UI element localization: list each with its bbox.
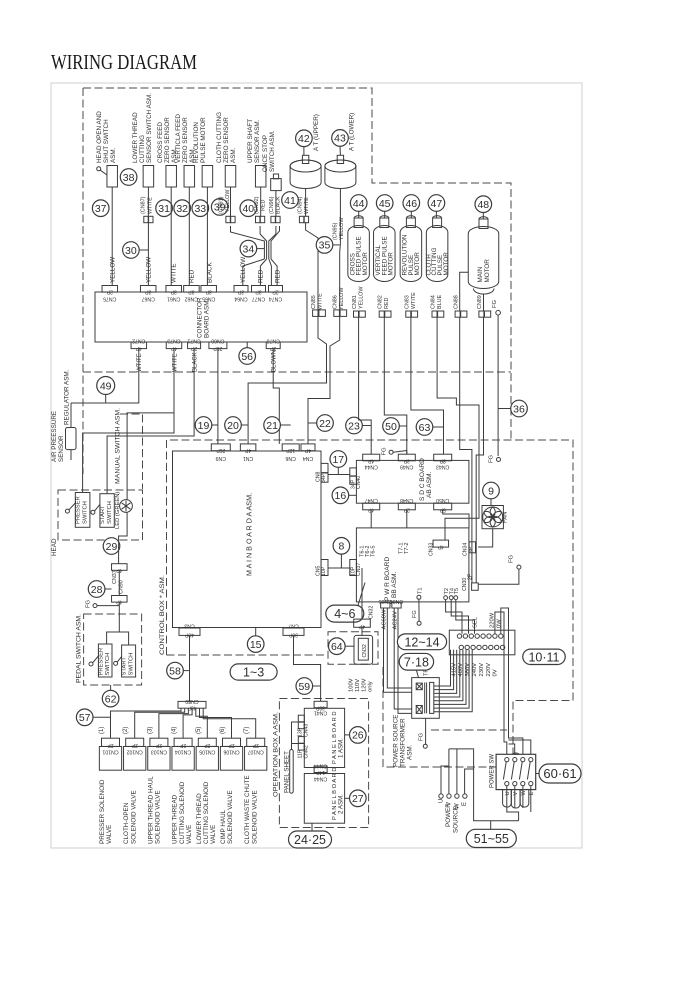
svg-text:35: 35 xyxy=(319,240,331,252)
OPERATION BOX dashed box xyxy=(279,699,368,828)
svg-text:VALVE: VALVE xyxy=(210,825,217,844)
svg-text:15: 15 xyxy=(250,639,262,651)
svg-text:220V: 220V xyxy=(486,663,492,677)
motor cross feed pulse xyxy=(348,216,370,282)
fan xyxy=(482,506,509,529)
svg-text:CN73: CN73 xyxy=(167,338,180,344)
svg-text:12P: 12P xyxy=(286,447,296,453)
svg-text:4P: 4P xyxy=(437,543,444,549)
svg-text:(1): (1) xyxy=(99,727,105,734)
label POWER SOURCE xyxy=(445,803,460,833)
connector CN47 sdc bottom xyxy=(363,497,380,512)
connector CN61 board top xyxy=(166,286,182,302)
wire CN88 to CN30 xyxy=(460,317,472,583)
svg-text:(CN96): (CN96) xyxy=(269,196,275,214)
svg-text:MOTOR: MOTOR xyxy=(414,252,421,276)
connector CN90 4P xyxy=(112,570,128,604)
svg-text:BLOWN: BLOWN xyxy=(272,350,278,372)
svg-text:FG: FG xyxy=(412,610,418,618)
svg-text:19: 19 xyxy=(198,420,210,432)
svg-text:HEAD OPEN AND: HEAD OPEN AND xyxy=(96,111,103,163)
wire CN7 to CN41 xyxy=(294,635,321,701)
svg-text:YELLOW: YELLOW xyxy=(110,257,117,283)
svg-text:CN102: CN102 xyxy=(127,749,143,755)
connector CN37 10P xyxy=(350,560,362,577)
svg-text:49: 49 xyxy=(100,380,112,392)
svg-text:WTITE: WTITE xyxy=(172,353,178,372)
svg-text:CN44: CN44 xyxy=(314,763,327,769)
svg-text:U: U xyxy=(439,799,445,803)
svg-text:(5): (5) xyxy=(196,727,202,734)
solenoid valve 7 CN107 xyxy=(244,727,267,844)
callout 22 xyxy=(308,415,333,432)
svg-text:PRESSER SOLENOID: PRESSER SOLENOID xyxy=(99,779,106,844)
callout 42 xyxy=(296,130,313,155)
harness fanout to CN64 xyxy=(240,257,264,286)
connector CN83 xyxy=(404,292,417,317)
svg-text:(3): (3) xyxy=(147,727,153,734)
svg-text:ASM.: ASM. xyxy=(110,147,117,163)
callout 29 xyxy=(103,538,120,555)
pill 4-6 xyxy=(326,583,365,623)
svg-text:22: 22 xyxy=(319,418,331,430)
HEAD dashed box xyxy=(58,490,143,540)
svg-text:RED: RED xyxy=(384,298,390,309)
connector CN64 board top xyxy=(234,286,248,302)
svg-text:4~6: 4~6 xyxy=(334,607,355,621)
svg-text:SOLENOID VALVE: SOLENOID VALVE xyxy=(251,790,258,844)
callout 15 xyxy=(247,628,264,653)
wire sensor5 to CN65 xyxy=(207,187,214,286)
svg-text:CN104: CN104 xyxy=(175,749,191,755)
wire callout36 stub xyxy=(498,408,511,410)
svg-text:only: only xyxy=(368,681,374,692)
svg-text:10P: 10P xyxy=(321,566,327,576)
connector CN30 2P xyxy=(462,573,478,591)
svg-text:3P: 3P xyxy=(144,289,151,295)
callout 43 xyxy=(332,130,349,156)
svg-text:400V: 400V xyxy=(458,663,464,677)
svg-text:REGULATOR ASM.: REGULATOR ASM. xyxy=(63,369,70,425)
svg-text:CN44: CN44 xyxy=(314,776,327,782)
svg-text:2P: 2P xyxy=(468,573,474,580)
wire CN50 to PWR xyxy=(443,510,469,528)
label MANUAL SWITCH ASM xyxy=(115,408,122,484)
power switch xyxy=(490,753,536,808)
svg-text:CN77: CN77 xyxy=(252,296,265,302)
svg-text:ASM.: ASM. xyxy=(407,744,414,760)
head presser switch xyxy=(65,493,90,528)
svg-text:SENSOR SWITCH ASM.: SENSOR SWITCH ASM. xyxy=(146,93,153,163)
svg-text:43: 43 xyxy=(334,133,346,145)
svg-text:RED: RED xyxy=(258,269,265,283)
connector CN89 xyxy=(477,294,491,317)
page border xyxy=(51,83,582,848)
svg-text:4P: 4P xyxy=(367,457,374,463)
wire motor FG xyxy=(497,315,499,456)
svg-text:(CN87): (CN87) xyxy=(141,196,147,214)
wire CN3 to CN80 xyxy=(189,635,191,701)
wire CN48 to PWR xyxy=(406,510,408,528)
callout 26 xyxy=(345,727,367,744)
svg-text:CUTTING SOLENOID: CUTTING SOLENOID xyxy=(179,781,186,844)
pedal start switch xyxy=(114,645,136,677)
wire CN5 branch to CN32 xyxy=(361,568,363,619)
svg-text:SHUT SWITCH: SHUT SWITCH xyxy=(103,119,110,163)
svg-text:29: 29 xyxy=(106,541,118,553)
connector CN43 13P panel xyxy=(298,715,310,737)
callout 41 xyxy=(282,192,299,209)
sensor revolution pulse xyxy=(193,117,213,187)
svg-text:4P: 4P xyxy=(304,447,311,453)
callout 17 xyxy=(330,451,347,475)
svg-text:CUTTING: CUTTING xyxy=(139,135,146,163)
pedal presser switch xyxy=(89,644,112,677)
svg-text:BLACK: BLACK xyxy=(207,262,214,283)
wires transformer taps xyxy=(434,650,472,712)
wire CN85 AT-upper down xyxy=(248,223,326,444)
svg-text:PULSE MOTOR: PULSE MOTOR xyxy=(200,117,207,163)
svg-text:(CN91): (CN91) xyxy=(219,196,225,214)
svg-text:CN48: CN48 xyxy=(400,497,413,503)
wire CN81 to CN44 xyxy=(359,317,372,454)
FG main motor pin xyxy=(492,299,501,315)
PEDAL SWITCH dashed box xyxy=(84,614,142,685)
connector CN41 30P xyxy=(314,701,327,715)
svg-text:VALVE: VALVE xyxy=(106,825,113,844)
sensor verticla-feed zero xyxy=(175,114,196,187)
svg-text:CN85: CN85 xyxy=(311,295,317,309)
svg-text:CN74: CN74 xyxy=(269,296,282,302)
svg-text:MOTOR: MOTOR xyxy=(484,259,491,283)
svg-text:40: 40 xyxy=(242,203,254,215)
svg-text:CLOTH-OPEN: CLOTH-OPEN xyxy=(123,802,130,844)
svg-text:YELLOW: YELLOW xyxy=(339,287,345,310)
svg-text:MANUAL SWITCH ASM.: MANUAL SWITCH ASM. xyxy=(115,408,122,484)
callout 37 xyxy=(92,200,109,217)
svg-text:WIRING DIAGRAM: WIRING DIAGRAM xyxy=(51,50,197,74)
svg-text:MOTOR: MOTOR xyxy=(362,252,369,276)
svg-text:MOTOR: MOTOR xyxy=(443,252,450,276)
callout 64 xyxy=(329,638,355,655)
svg-text:YELLOW: YELLOW xyxy=(339,217,345,240)
svg-text:(CN94): (CN94) xyxy=(298,196,304,214)
pins OT2 OT4 OT5 xyxy=(444,588,461,600)
pill 1-3 xyxy=(230,664,277,680)
svg-text:28: 28 xyxy=(91,584,103,596)
pill 10-11 xyxy=(523,649,566,664)
svg-text:SWITCH: SWITCH xyxy=(107,501,113,524)
svg-text:V: V xyxy=(513,792,519,796)
svg-text:7·18: 7·18 xyxy=(404,655,429,669)
svg-text:START: START xyxy=(100,505,106,524)
callout 49 xyxy=(97,377,115,404)
svg-text:9: 9 xyxy=(488,485,494,497)
motor cloth cutting pulse xyxy=(425,216,449,282)
svg-text:CN78: CN78 xyxy=(266,338,279,344)
callout 45 xyxy=(376,195,393,218)
svg-text:A T (UPPER): A T (UPPER) xyxy=(313,114,320,151)
svg-text:2 ASM.: 2 ASM. xyxy=(338,794,345,814)
connector CN9 main top xyxy=(211,444,230,461)
label WTITE CN72 xyxy=(137,353,143,372)
svg-text:CN103: CN103 xyxy=(151,749,167,755)
svg-text:AB ASM.: AB ASM. xyxy=(426,471,433,498)
pill 24-25 xyxy=(289,831,332,848)
label CONTROL BOX ASM xyxy=(159,575,166,655)
connector board ASM xyxy=(95,292,307,342)
svg-text:CIMP HAUL: CIMP HAUL xyxy=(220,809,227,844)
FG sdc xyxy=(382,447,407,456)
solenoid valve 4 CN104 xyxy=(172,727,195,844)
terminal block xyxy=(449,630,515,655)
A T lower unit xyxy=(325,113,356,189)
svg-text:CN9: CN9 xyxy=(216,455,226,461)
FG pedal xyxy=(86,599,120,608)
label WTITE CN73 xyxy=(172,353,178,372)
svg-text:SWITCH: SWITCH xyxy=(105,653,111,676)
svg-text:ZERO SENSOR: ZERO SENSOR xyxy=(223,117,230,163)
svg-text:CN75: CN75 xyxy=(103,296,116,302)
svg-text:380V: 380V xyxy=(465,663,471,677)
svg-text:60·61: 60·61 xyxy=(543,766,576,781)
svg-text:WTITE: WTITE xyxy=(411,292,417,309)
svg-text:4P: 4P xyxy=(244,447,251,453)
wire sensor4 to CN62 xyxy=(189,187,196,286)
callout 57 xyxy=(76,709,110,726)
svg-text:WTITE: WTITE xyxy=(318,293,324,310)
callout 56 xyxy=(239,342,256,364)
pedal wire stem xyxy=(107,602,129,645)
svg-text:CLOTH WASTE CHUTE: CLOTH WASTE CHUTE xyxy=(244,775,251,844)
connector CN81 xyxy=(352,286,365,318)
sensor cross-feed zero xyxy=(157,117,178,187)
wire AT-upper inline xyxy=(298,188,311,223)
svg-text:CN101: CN101 xyxy=(102,749,118,755)
callout 16 xyxy=(332,487,356,504)
svg-text:MOTOR: MOTOR xyxy=(388,252,395,276)
svg-text:ASM.: ASM. xyxy=(230,147,237,163)
svg-text:36: 36 xyxy=(513,403,525,415)
wire CN5-CN37 xyxy=(328,567,350,569)
wire CN82 to CN49 xyxy=(384,317,407,454)
svg-text:S D C BOARD: S D C BOARD xyxy=(419,458,426,501)
svg-text:26P: 26P xyxy=(216,447,226,453)
wire 220W to SW xyxy=(495,612,507,760)
main motor xyxy=(468,217,499,294)
svg-text:BLACK: BLACK xyxy=(275,196,281,214)
wire CN84 to CN33 xyxy=(437,317,479,540)
sensor head-open switch xyxy=(96,111,117,187)
svg-text:WTITE: WTITE xyxy=(137,353,143,372)
wire CN72 to regulator (49) xyxy=(71,349,139,403)
FG near power xyxy=(478,554,521,584)
head start switch xyxy=(91,494,114,528)
connector CN71 board bottom xyxy=(187,338,200,352)
svg-text:57: 57 xyxy=(79,712,91,724)
once-stop switch xyxy=(262,130,281,190)
callout 38 xyxy=(120,169,137,186)
svg-text:CN6: CN6 xyxy=(285,455,295,461)
callout 21 xyxy=(264,417,291,434)
svg-text:10·11: 10·11 xyxy=(528,650,559,664)
pill 7-18 xyxy=(399,653,433,677)
title WIRING DIAGRAM xyxy=(51,50,197,74)
svg-text:BLACK: BLACK xyxy=(193,352,199,372)
svg-text:42: 42 xyxy=(298,133,310,145)
labels UVWE under SW xyxy=(505,790,535,796)
connector CN4 main top xyxy=(301,444,315,461)
svg-text:63: 63 xyxy=(419,422,431,434)
connector CN48 sdc bottom xyxy=(398,497,415,512)
callout 58 xyxy=(167,662,190,679)
svg-text:CUTTING SOLENOID: CUTTING SOLENOID xyxy=(203,781,210,844)
callout 39 xyxy=(211,199,228,216)
svg-text:0W: 0W xyxy=(497,619,503,628)
svg-text:8P: 8P xyxy=(439,457,446,463)
svg-text:12~14: 12~14 xyxy=(404,635,439,649)
motor revolution pulse xyxy=(400,216,422,282)
svg-text:33: 33 xyxy=(194,203,206,215)
svg-text:CN81: CN81 xyxy=(352,295,358,309)
PWR board BB ASM xyxy=(356,528,469,602)
svg-text:TRANSFORMER: TRANSFORMER xyxy=(400,718,407,767)
callout 59 xyxy=(296,678,321,695)
callout 62 xyxy=(102,685,119,707)
labels T6 xyxy=(360,545,377,557)
svg-text:3P: 3P xyxy=(237,289,244,295)
svg-text:CN3: CN3 xyxy=(184,623,194,629)
connector CN62 board top xyxy=(184,286,200,302)
svg-text:SOLENOID VALVE: SOLENOID VALVE xyxy=(155,790,162,844)
panel board 1 xyxy=(304,708,344,767)
svg-text:LOWER THREAD: LOWER THREAD xyxy=(132,112,139,163)
svg-text:AC60W: AC60W xyxy=(382,609,388,630)
svg-text:CN43: CN43 xyxy=(303,724,309,737)
wires OT2/4/5 to terminal block xyxy=(446,600,475,634)
svg-text:CN105: CN105 xyxy=(199,749,215,755)
svg-text:BOARD ASM.: BOARD ASM. xyxy=(204,299,211,338)
svg-text:E: E xyxy=(529,792,535,796)
svg-text:24·25: 24·25 xyxy=(294,833,326,847)
FG motor-ground xyxy=(489,454,501,463)
svg-text:34: 34 xyxy=(243,243,255,255)
svg-text:30P: 30P xyxy=(315,704,325,710)
svg-text:41: 41 xyxy=(284,195,296,207)
svg-text:47: 47 xyxy=(431,198,443,210)
solenoid valve 6 CN106 xyxy=(220,727,243,844)
machine head dashed left edge xyxy=(82,88,84,474)
harness fanout to CN77 xyxy=(258,259,267,286)
solenoid valve 5 CN105 xyxy=(196,727,219,844)
wire 0W to SW xyxy=(501,608,523,760)
svg-text:62: 62 xyxy=(105,693,117,705)
svg-text:WTITE: WTITE xyxy=(148,197,154,214)
svg-text:LOWER THREAD: LOWER THREAD xyxy=(196,793,203,844)
svg-text:1~3: 1~3 xyxy=(243,666,264,680)
connector CN33 4P xyxy=(429,540,449,556)
svg-text:64: 64 xyxy=(331,641,343,653)
callout 9 xyxy=(483,482,500,505)
connector CN42 panel xyxy=(298,737,310,759)
svg-text:SWITCH: SWITCH xyxy=(82,501,88,524)
svg-text:UPPER THREAD: UPPER THREAD xyxy=(172,794,179,844)
FG OT1 xyxy=(412,599,421,625)
svg-text:WTITE: WTITE xyxy=(171,263,178,283)
svg-text:E: E xyxy=(462,802,468,806)
svg-text:8: 8 xyxy=(338,541,344,553)
svg-text:VALVE: VALVE xyxy=(186,825,193,844)
main board A ASM xyxy=(173,451,322,628)
svg-text:23: 23 xyxy=(348,420,360,432)
wire CN83 to CN43 xyxy=(411,317,444,454)
svg-text:59: 59 xyxy=(298,681,310,693)
svg-text:CN40: CN40 xyxy=(356,476,362,489)
connector CN32 4P xyxy=(354,606,375,629)
label PEDAL SWITCH ASM xyxy=(76,614,83,683)
power source pins xyxy=(439,749,519,829)
harness funnel xyxy=(231,226,280,259)
wire sensor1 to CN75 xyxy=(110,187,117,286)
panel board 2 xyxy=(304,767,344,823)
svg-text:50: 50 xyxy=(385,421,397,433)
wire panel2 stem xyxy=(311,823,313,831)
svg-text:POWER SOURCE: POWER SOURCE xyxy=(393,715,400,767)
svg-text:3P: 3P xyxy=(255,289,262,295)
label BLACK CN71 xyxy=(193,352,199,372)
svg-text:BLUE: BLUE xyxy=(437,295,443,309)
svg-text:2P: 2P xyxy=(131,742,138,748)
sensor cloth-cutting zero xyxy=(216,112,237,187)
callout 27 xyxy=(345,790,367,807)
control box dashed outline xyxy=(167,440,574,767)
svg-text:START: START xyxy=(122,657,128,676)
svg-text:CONNECTOR: CONNECTOR xyxy=(197,297,204,338)
svg-text:2P: 2P xyxy=(272,289,279,295)
FG transformer xyxy=(418,718,427,748)
panel sheet xyxy=(283,750,293,794)
connector CN3 main bottom xyxy=(179,623,200,638)
svg-text:CN50: CN50 xyxy=(436,497,449,503)
solenoid valve 2 CN102 xyxy=(123,727,146,844)
svg-text:CN62: CN62 xyxy=(185,296,198,302)
svg-text:PANEL SHEET: PANEL SHEET xyxy=(283,751,290,793)
svg-text:2P: 2P xyxy=(228,742,235,748)
connector CN1 main top xyxy=(240,444,256,461)
callout 8 xyxy=(333,538,350,569)
svg-text:SWITCH: SWITCH xyxy=(128,653,134,676)
svg-text:UPPER SHAFT: UPPER SHAFT xyxy=(247,119,254,163)
svg-text:CN37: CN37 xyxy=(356,563,362,576)
svg-text:CN32: CN32 xyxy=(369,606,375,619)
svg-text:HEAD: HEAD xyxy=(51,538,58,556)
svg-text:ONCE STOP: ONCE STOP xyxy=(262,135,269,172)
label POWER SOURCE TRANSFORMER ASM xyxy=(393,715,414,767)
svg-text:37: 37 xyxy=(95,203,107,215)
svg-text:FG: FG xyxy=(382,447,388,456)
svg-text:2P: 2P xyxy=(106,289,113,295)
svg-text:31: 31 xyxy=(158,203,170,215)
connector CN8 34P xyxy=(316,463,329,483)
svg-text:PRESSER: PRESSER xyxy=(98,648,104,676)
svg-text:100V: 100V xyxy=(349,678,355,692)
callout 36 xyxy=(511,400,528,417)
pill 60-61 xyxy=(536,764,581,783)
svg-text:2P: 2P xyxy=(155,742,162,748)
svg-text:YELLOW: YELLOW xyxy=(359,286,365,309)
svg-text:21: 21 xyxy=(266,420,278,432)
machine head dashed outline top xyxy=(83,88,511,440)
